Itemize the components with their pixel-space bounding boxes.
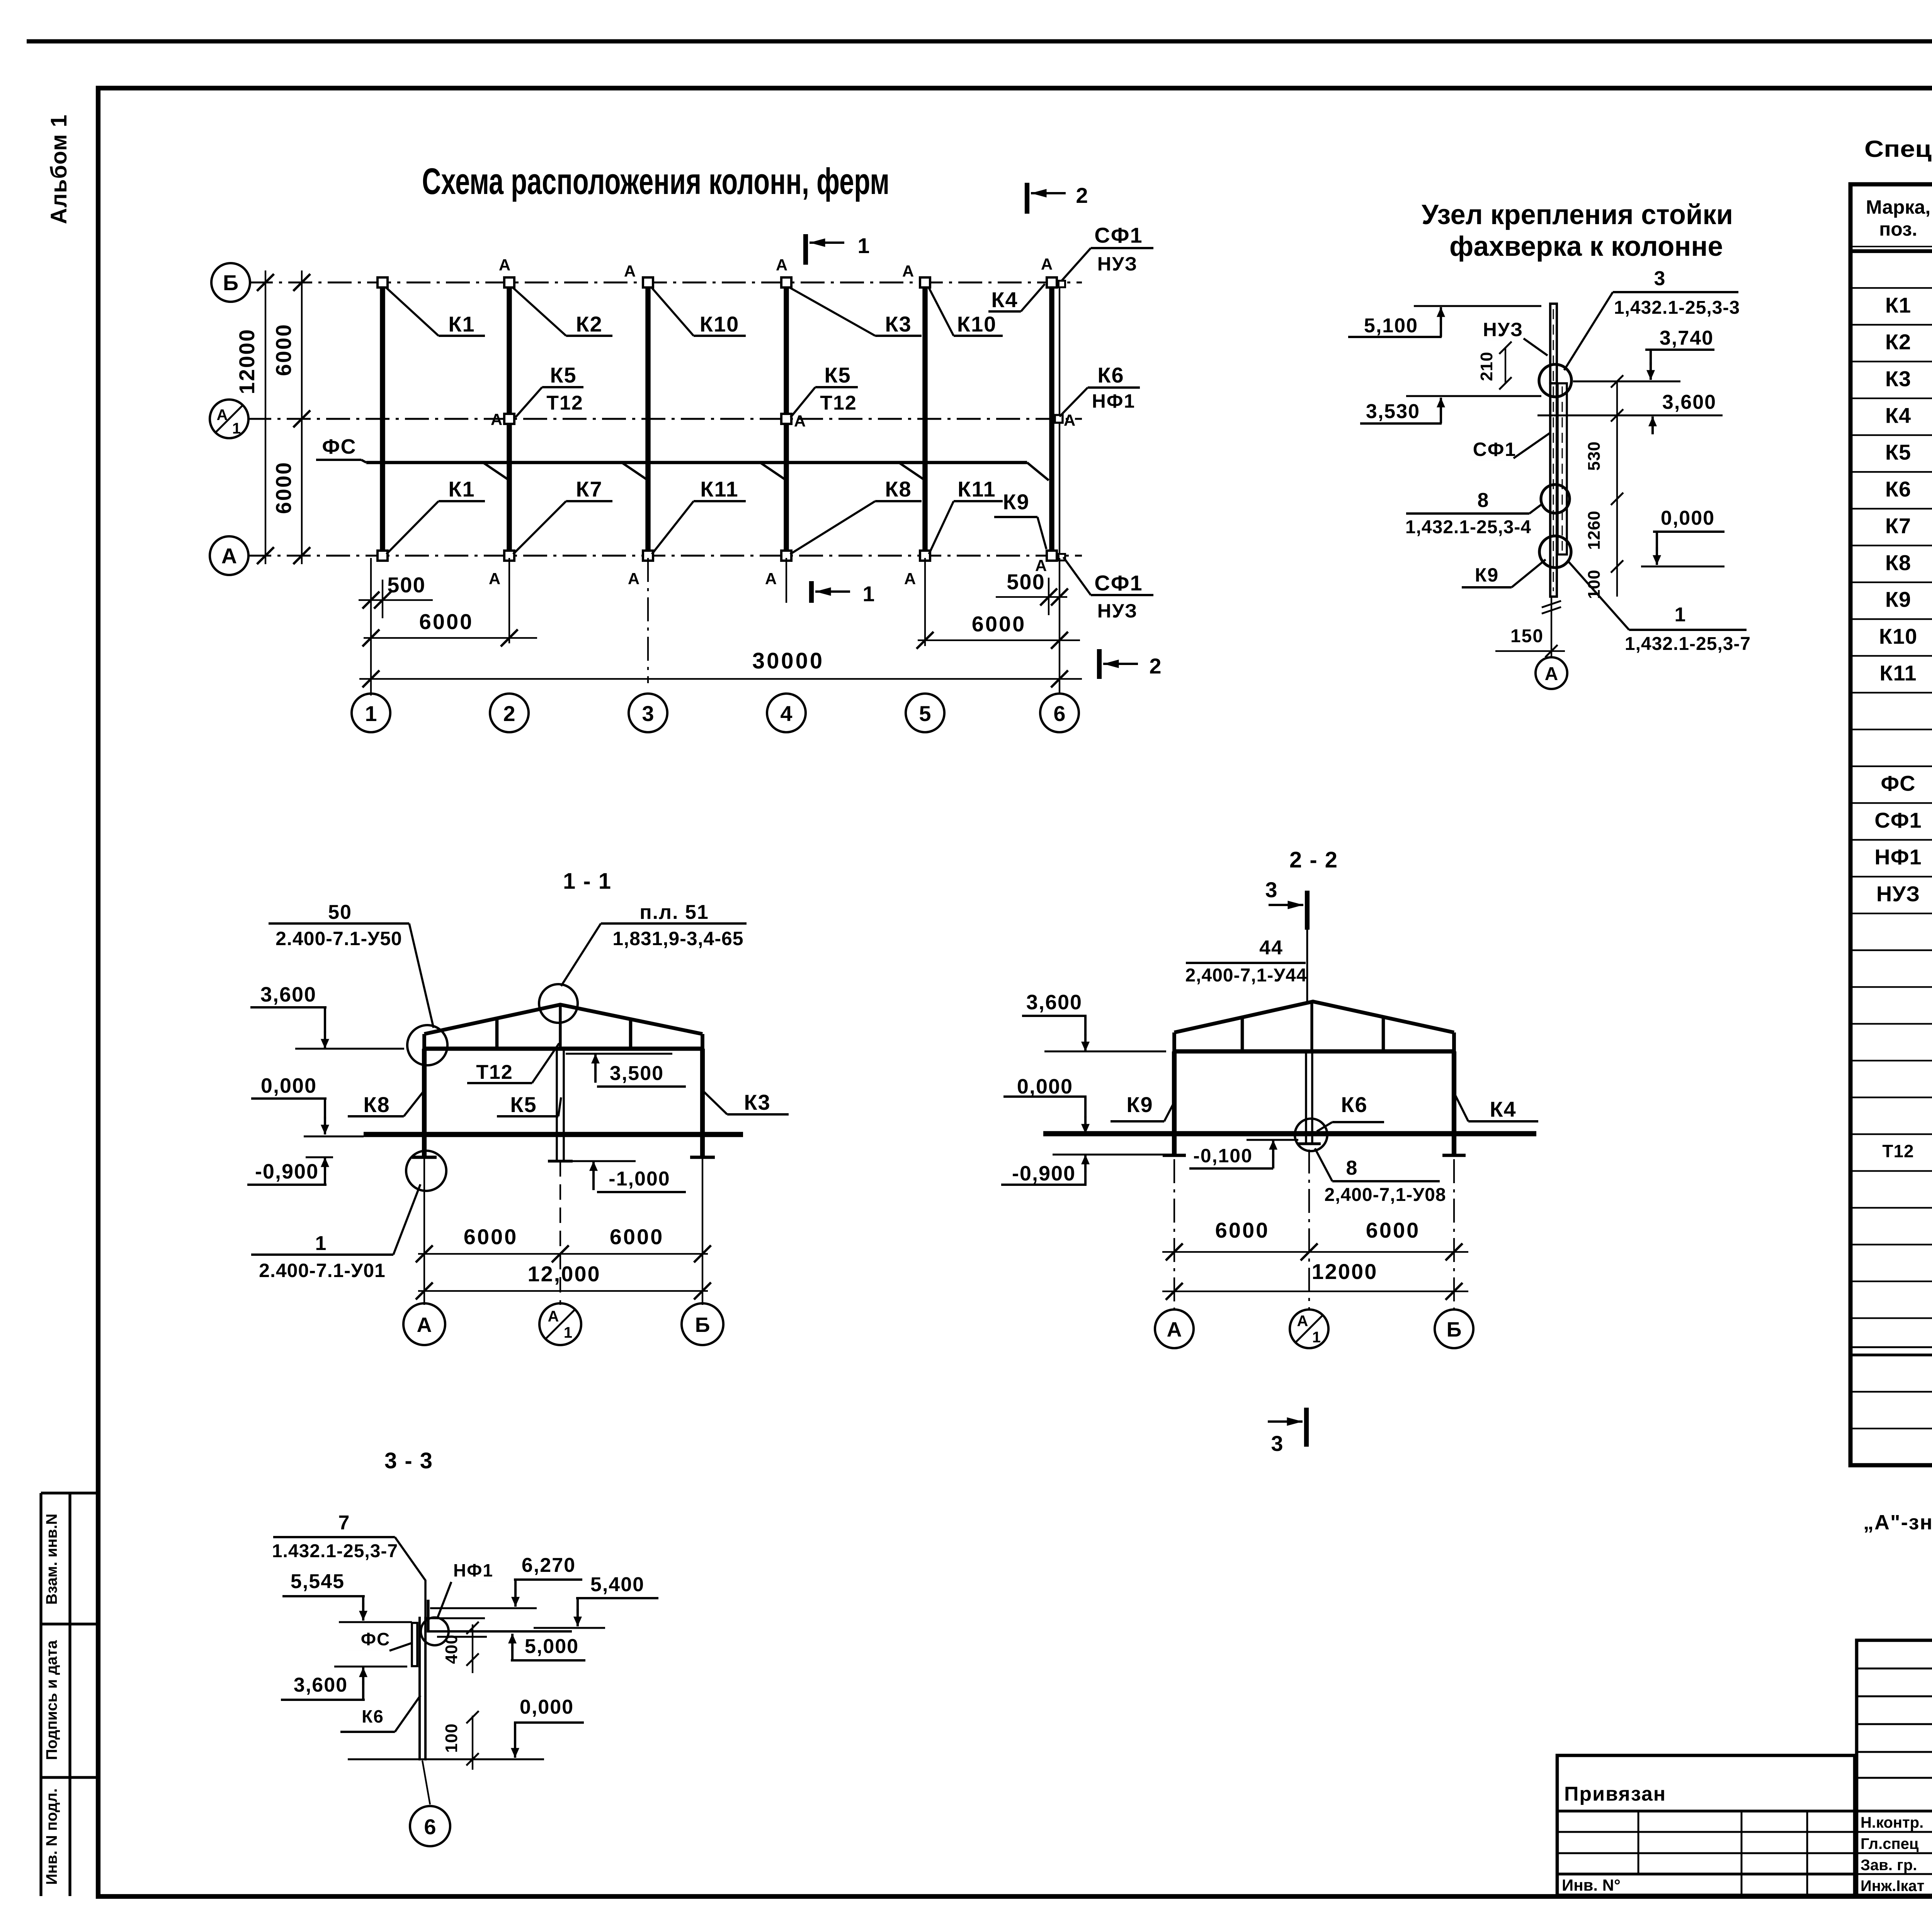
column К6 3-3 <box>418 1617 421 1760</box>
svg-text:Т12: Т12 <box>1882 1141 1914 1161</box>
dimension 100 3-3 <box>472 1716 473 1770</box>
column К8 section 1-1 <box>422 1049 427 1157</box>
svg-text:К1: К1 <box>448 312 475 336</box>
svg-text:Схема расположения колонн, фер: Схема расположения колонн, ферм <box>422 161 889 202</box>
node circle 3 detail <box>1539 364 1571 397</box>
svg-text:К7: К7 <box>576 477 602 501</box>
svg-text:К7: К7 <box>1885 514 1911 538</box>
svg-text:СФ1: СФ1 <box>1874 808 1922 832</box>
svg-text:3,530: 3,530 <box>1366 400 1420 423</box>
svg-text:500: 500 <box>1007 570 1045 594</box>
svg-text:1: 1 <box>232 420 241 437</box>
axis line А <box>247 555 1082 557</box>
svg-text:НФ1: НФ1 <box>453 1560 493 1580</box>
svg-text:К5: К5 <box>550 363 577 387</box>
svg-text:А: А <box>1167 1318 1182 1341</box>
dimension 30000 <box>359 678 1082 680</box>
svg-text:12,000: 12,000 <box>527 1262 600 1286</box>
svg-text:1: 1 <box>1312 1329 1321 1346</box>
svg-text:3 - 3: 3 - 3 <box>384 1448 433 1473</box>
svg-text:НУЗ: НУЗ <box>1097 600 1138 622</box>
column К9 section 2-2 <box>1172 1051 1177 1155</box>
svg-text:А: А <box>765 570 777 588</box>
svg-text:1: 1 <box>564 1324 572 1341</box>
svg-text:Т12: Т12 <box>820 392 857 414</box>
svg-text:Инв. N°: Инв. N° <box>1562 1876 1621 1894</box>
truss struts 1-1 <box>495 1019 499 1049</box>
column squares row А <box>378 551 388 561</box>
fachwerk post square top <box>1059 281 1065 287</box>
svg-text:1260: 1260 <box>1585 510 1604 550</box>
eaves double line 3-3 <box>428 1630 572 1633</box>
elevation -1,000 1-1 <box>566 1160 636 1162</box>
grid circle Б <box>211 263 250 302</box>
ground line 1-1 <box>364 1132 743 1137</box>
svg-text:150: 150 <box>1510 626 1544 646</box>
svg-text:К1: К1 <box>1885 293 1911 317</box>
svg-text:2: 2 <box>1149 654 1161 678</box>
column squares row Б <box>378 277 388 287</box>
section cut line 3 bottom <box>1304 1408 1309 1447</box>
node circle base 2-2 <box>1295 1119 1327 1151</box>
svg-text:А: А <box>221 544 237 568</box>
svg-text:К6: К6 <box>1885 477 1911 501</box>
svg-text:А: А <box>904 570 916 588</box>
column К3 section 1-1 <box>700 1049 705 1157</box>
section cut line 3 top <box>1305 891 1310 930</box>
axis bubbles 2-2 <box>1155 1310 1194 1348</box>
svg-text:СФ1: СФ1 <box>1473 439 1517 460</box>
svg-text:НУЗ: НУЗ <box>1097 253 1138 275</box>
svg-text:А: А <box>1064 411 1075 429</box>
svg-text:500: 500 <box>387 573 425 597</box>
truss end verticals 2-2 <box>1172 1032 1176 1051</box>
column К4 section 2-2 <box>1452 1051 1456 1155</box>
dimension 400 3-3 <box>472 1624 473 1673</box>
svg-text:фахверка к колонне: фахверка к колонне <box>1449 231 1723 262</box>
ground line 3-3 <box>348 1759 544 1760</box>
svg-text:6,270: 6,270 <box>522 1554 576 1577</box>
svg-text:К8: К8 <box>363 1092 390 1117</box>
svg-text:2.400-7.1-У01: 2.400-7.1-У01 <box>259 1260 386 1281</box>
axis bubble А node <box>1536 657 1567 689</box>
svg-text:К11: К11 <box>957 477 996 501</box>
svg-text:А: А <box>548 1308 559 1325</box>
svg-text:2.400-7.1-У50: 2.400-7.1-У50 <box>276 928 402 949</box>
grid circle А/1 <box>210 400 248 438</box>
svg-text:ФС: ФС <box>361 1629 390 1649</box>
svg-text:А: А <box>489 570 500 588</box>
svg-text:50: 50 <box>328 901 352 923</box>
svg-text:СФ1: СФ1 <box>1094 223 1143 247</box>
axis extension lines 1-1 <box>423 1157 425 1305</box>
vertical dimension line node <box>1616 381 1618 597</box>
grid circle А <box>210 536 248 575</box>
title block center part frame <box>1857 1640 1932 1895</box>
svg-text:1: 1 <box>862 582 874 606</box>
specification table header line <box>1850 249 1932 253</box>
svg-text:К2: К2 <box>1885 330 1911 354</box>
svg-text:6000: 6000 <box>464 1225 518 1249</box>
svg-text:ФС: ФС <box>1881 771 1915 796</box>
svg-text:Подпись и дата: Подпись и дата <box>43 1640 60 1760</box>
left margin stamp boxes <box>39 1493 42 1896</box>
svg-text:1.432.1-25,3-7: 1.432.1-25,3-7 <box>272 1541 398 1561</box>
node circle eave 1-1 <box>407 1025 447 1065</box>
truss apex post 2-2 <box>1310 1002 1313 1051</box>
column squares row А/1 <box>504 414 514 424</box>
svg-text:6000: 6000 <box>419 609 474 634</box>
svg-text:-0,100: -0,100 <box>1193 1145 1253 1167</box>
svg-text:6000: 6000 <box>1215 1218 1270 1242</box>
svg-text:6000: 6000 <box>972 612 1026 636</box>
svg-text:2: 2 <box>1076 183 1088 207</box>
svg-text:Гл.спец: Гл.спец <box>1861 1835 1919 1852</box>
svg-text:1: 1 <box>365 701 377 726</box>
top chord line 3-3 <box>425 1617 485 1619</box>
svg-text:2: 2 <box>503 701 515 726</box>
svg-text:2,400-7,1-У44: 2,400-7,1-У44 <box>1185 965 1307 986</box>
specification table row lines <box>1850 287 1932 289</box>
svg-text:НФ1: НФ1 <box>1092 390 1136 412</box>
elevation 3,500 1-1 <box>566 1053 672 1055</box>
fachwerk axis line 6 upper <box>1059 282 1060 419</box>
truss top chord 2-2 <box>1174 1002 1454 1032</box>
svg-text:К9: К9 <box>1475 564 1499 586</box>
svg-text:Узел крепления стойки: Узел крепления стойки <box>1422 199 1733 230</box>
svg-text:5: 5 <box>919 701 931 726</box>
svg-text:Марка,: Марка, <box>1866 196 1930 218</box>
svg-text:30000: 30000 <box>752 648 824 673</box>
svg-text:К10: К10 <box>957 312 997 336</box>
plan axis bubbles 1-6 <box>352 694 390 732</box>
axis bubble 6 3-3 <box>410 1806 450 1846</box>
ground line 2-2 <box>1043 1131 1536 1136</box>
svg-text:-1,000: -1,000 <box>609 1168 670 1190</box>
svg-text:44: 44 <box>1259 937 1283 959</box>
svg-text:3: 3 <box>1265 878 1277 902</box>
axis line below node <box>1551 597 1552 657</box>
svg-text:1,432.1-25,3-3: 1,432.1-25,3-3 <box>1614 298 1740 318</box>
svg-text:К11: К11 <box>1879 661 1917 685</box>
svg-text:3,600: 3,600 <box>260 983 316 1006</box>
svg-text:0,000: 0,000 <box>1017 1075 1073 1098</box>
axis line А/1 <box>247 418 1082 420</box>
footing level line 2-2 <box>1053 1154 1174 1156</box>
svg-text:5,400: 5,400 <box>590 1573 645 1596</box>
svg-text:СФ1: СФ1 <box>1094 571 1143 595</box>
svg-text:К5: К5 <box>1885 440 1911 464</box>
svg-text:Т12: Т12 <box>476 1061 513 1083</box>
fachwerk axis line 6 lower <box>1059 419 1060 556</box>
svg-text:„А"-знак: „А"-знак <box>1863 1511 1932 1534</box>
svg-text:5,100: 5,100 <box>1364 315 1418 337</box>
svg-text:3,500: 3,500 <box>610 1062 664 1085</box>
node circle apex 1-1 <box>539 984 578 1023</box>
svg-text:8: 8 <box>1346 1157 1357 1179</box>
dimension 12,000 1-1 <box>418 1290 708 1292</box>
plate ФС 3-3 <box>412 1623 417 1666</box>
dimension 500 left <box>359 599 433 601</box>
svg-text:Б: Б <box>695 1313 710 1337</box>
column body node detail <box>1550 383 1557 597</box>
node circle 1 detail <box>1539 536 1571 568</box>
svg-text:1: 1 <box>857 233 869 258</box>
svg-text:1: 1 <box>1675 604 1686 626</box>
axis line below 3-3 <box>422 1760 430 1804</box>
svg-text:К6: К6 <box>362 1706 384 1726</box>
specification table outer frame <box>1850 184 1932 1465</box>
dimension 210 node <box>1505 348 1506 383</box>
svg-text:1,432.1-25,3-4: 1,432.1-25,3-4 <box>1405 517 1531 537</box>
sheet outer border top <box>27 39 1932 44</box>
svg-text:К8: К8 <box>1885 550 1911 575</box>
axis extension lines 2-2 <box>1173 1159 1175 1310</box>
svg-text:12000: 12000 <box>1312 1259 1378 1284</box>
fachwerk post square bottom <box>1059 554 1065 561</box>
svg-text:Б: Б <box>223 270 238 295</box>
svg-text:А: А <box>1545 664 1558 684</box>
section mark 2 bottom <box>1097 649 1102 679</box>
truss bottom chord 1-1 <box>423 1047 704 1051</box>
svg-text:НУЗ: НУЗ <box>1876 881 1920 906</box>
svg-text:2 - 2: 2 - 2 <box>1289 847 1338 872</box>
svg-text:3,740: 3,740 <box>1660 327 1714 349</box>
svg-text:8: 8 <box>1478 489 1489 512</box>
truss line ФС <box>366 461 1027 464</box>
dimension 12000 2-2 <box>1162 1291 1468 1292</box>
svg-text:-0,900: -0,900 <box>255 1160 319 1183</box>
svg-text:К4: К4 <box>1490 1097 1516 1121</box>
svg-text:6: 6 <box>1053 701 1065 726</box>
svg-text:А: А <box>624 262 636 280</box>
svg-text:п.л. 51: п.л. 51 <box>639 901 709 923</box>
насадка НФ1 3-3 <box>427 1600 429 1633</box>
svg-text:5,000: 5,000 <box>525 1635 579 1658</box>
svg-text:Спецификация элементовк схеме: Спецификация элементовк схеме расположен… <box>1864 136 1932 162</box>
dimension 6000 right <box>918 639 1080 641</box>
svg-text:А: А <box>902 262 914 280</box>
svg-text:0,000: 0,000 <box>1661 507 1715 529</box>
svg-text:Взам. инв.N: Взам. инв.N <box>43 1514 60 1605</box>
svg-text:К11: К11 <box>700 477 738 501</box>
svg-text:1: 1 <box>315 1232 327 1255</box>
svg-text:3,600: 3,600 <box>1026 991 1082 1014</box>
svg-text:5,545: 5,545 <box>291 1570 345 1593</box>
vertical dimension line 6000/6000 <box>301 270 303 564</box>
svg-text:530: 530 <box>1585 441 1604 471</box>
svg-text:К4: К4 <box>1885 403 1911 427</box>
svg-text:К5: К5 <box>510 1092 537 1117</box>
svg-text:2,400-7,1-У08: 2,400-7,1-У08 <box>1324 1185 1446 1205</box>
svg-text:поз.: поз. <box>1879 218 1917 240</box>
svg-text:210: 210 <box>1477 352 1496 381</box>
svg-text:К10: К10 <box>1879 624 1917 648</box>
svg-text:Инж.Iкат: Инж.Iкат <box>1861 1878 1924 1895</box>
svg-text:НФ1: НФ1 <box>1874 845 1922 869</box>
svg-text:7: 7 <box>338 1512 350 1534</box>
svg-text:К4: К4 <box>991 287 1018 312</box>
truss struts 2-2 <box>1241 1017 1244 1051</box>
title block left part frame <box>1557 1755 1855 1895</box>
svg-text:4: 4 <box>780 701 792 726</box>
svg-text:А: А <box>1297 1313 1308 1330</box>
svg-text:К3: К3 <box>1885 366 1911 391</box>
svg-text:А: А <box>628 570 639 588</box>
svg-text:К8: К8 <box>885 477 912 501</box>
svg-text:Т12: Т12 <box>546 392 583 414</box>
svg-text:1,831,9-3,4-65: 1,831,9-3,4-65 <box>612 928 743 949</box>
svg-text:К9: К9 <box>1003 490 1029 514</box>
svg-text:3,600: 3,600 <box>1662 391 1716 413</box>
svg-text:А: А <box>417 1313 432 1337</box>
svg-text:0,000: 0,000 <box>520 1696 574 1718</box>
svg-text:А: А <box>1041 255 1053 273</box>
svg-text:Зав. гр.: Зав. гр. <box>1861 1857 1917 1874</box>
svg-text:А: А <box>794 412 806 430</box>
svg-text:3: 3 <box>642 701 654 726</box>
svg-text:К3: К3 <box>885 312 912 336</box>
svg-text:3,600: 3,600 <box>294 1674 348 1696</box>
svg-text:Б: Б <box>1447 1318 1462 1341</box>
svg-text:6000: 6000 <box>271 461 296 514</box>
extension lines below plan <box>370 558 372 696</box>
truss bottom chord 2-2 <box>1173 1049 1456 1054</box>
svg-text:3: 3 <box>1271 1431 1283 1456</box>
svg-text:6000: 6000 <box>1366 1218 1420 1242</box>
dimension 6000 6000 1-1 <box>418 1253 708 1255</box>
svg-text:400: 400 <box>442 1634 461 1664</box>
svg-text:К3: К3 <box>744 1090 770 1114</box>
column К6 middle section 2-2 <box>1305 1051 1307 1144</box>
dimension 6000 left <box>364 637 537 639</box>
svg-text:1,432.1-25,3-7: 1,432.1-25,3-7 <box>1625 634 1751 654</box>
svg-text:НУЗ: НУЗ <box>1483 319 1524 340</box>
truss end verticals 1-1 <box>422 1034 426 1049</box>
svg-text:ФС: ФС <box>322 435 356 458</box>
svg-text:6: 6 <box>424 1815 436 1839</box>
svg-text:А: А <box>217 406 228 423</box>
svg-text:К10: К10 <box>700 312 739 336</box>
svg-text:Инв. N подл.: Инв. N подл. <box>43 1788 60 1885</box>
node circle 8 detail <box>1541 485 1570 513</box>
svg-text:3: 3 <box>1654 267 1665 290</box>
svg-text:6000: 6000 <box>610 1225 664 1249</box>
section mark 1 bottom <box>809 581 814 603</box>
svg-text:-0,900: -0,900 <box>1012 1162 1076 1185</box>
svg-text:Привязан: Привязан <box>1564 1783 1666 1805</box>
svg-text:Н.контр.: Н.контр. <box>1861 1814 1923 1831</box>
section mark 2 top <box>1025 183 1029 214</box>
post СФ1 node detail <box>1558 383 1567 554</box>
axis line Б <box>249 282 1082 284</box>
section mark 1 top <box>803 234 808 265</box>
level line 3600 3-3 <box>334 1666 407 1668</box>
dimension 150 node <box>1495 650 1565 652</box>
column К5 middle section 1-1 <box>556 1049 558 1161</box>
svg-text:1 - 1: 1 - 1 <box>563 869 612 894</box>
svg-text:0,000: 0,000 <box>261 1074 317 1097</box>
svg-text:К2: К2 <box>576 312 602 336</box>
vertical dimension line 12000 <box>265 270 266 564</box>
svg-text:А: А <box>776 256 787 274</box>
svg-text:К6: К6 <box>1097 363 1124 387</box>
svg-text:12000: 12000 <box>235 328 259 395</box>
dimension 500 right <box>996 596 1067 598</box>
svg-text:100: 100 <box>442 1723 461 1753</box>
node circle footing 1-1 <box>406 1151 446 1191</box>
svg-text:А: А <box>499 256 510 274</box>
dimension 6000 6000 2-2 <box>1162 1251 1468 1253</box>
axis bubbles 1-1 <box>403 1303 445 1345</box>
truss apex post 1-1 <box>559 1005 561 1049</box>
node circle 3-3 <box>421 1617 449 1645</box>
svg-text:К5: К5 <box>824 363 851 387</box>
svg-text:К9: К9 <box>1885 587 1911 612</box>
svg-text:К1: К1 <box>448 477 475 501</box>
svg-text:6000: 6000 <box>271 323 296 376</box>
svg-text:Альбом 1: Альбом 1 <box>46 114 71 224</box>
svg-text:К6: К6 <box>1341 1092 1367 1117</box>
svg-text:К9: К9 <box>1126 1092 1153 1117</box>
truss top chord 1-1 <box>424 1005 702 1034</box>
fachwerk corner post НУЗ <box>1550 304 1557 383</box>
columns in plan <box>380 282 385 556</box>
svg-text:А: А <box>491 410 502 429</box>
